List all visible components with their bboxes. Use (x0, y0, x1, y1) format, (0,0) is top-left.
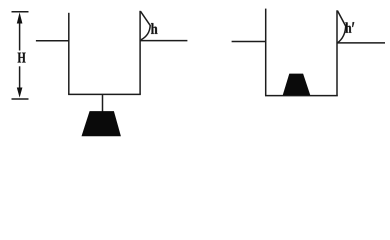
vessel 2 left wall (265, 9, 267, 96)
label h (151, 23, 157, 34)
dimension H bottom tick (12, 98, 29, 100)
up arrowhead of H dimension (17, 12, 23, 23)
weight inside vessel 2 (black trapezoid) (283, 74, 311, 96)
label H (18, 53, 26, 63)
vessel 1 right wall (139, 11, 141, 95)
right water line (right figure) (337, 42, 385, 44)
dimension H shaft upper (19, 20, 21, 51)
label h-prime: prime mark (352, 22, 354, 27)
vessel 1 left wall (68, 13, 70, 95)
suspension stem (string) (102, 94, 104, 111)
dimension H shaft lower (19, 66, 21, 88)
right water line (left figure) (140, 40, 187, 42)
vessel 2 right wall (336, 10, 338, 95)
down arrowhead of H dimension (17, 88, 23, 98)
vessel 1 bottom (68, 93, 141, 95)
freeboard marker h (curved pennant, left figure) (141, 11, 151, 40)
dimension H top tick (12, 11, 29, 13)
weight hung below vessel 1 (black trapezoid) (82, 111, 121, 136)
left water line (right figure) (232, 41, 266, 43)
left water line (left figure) (36, 40, 69, 42)
label h-prime: h (345, 22, 351, 32)
vessel 2 bottom (265, 95, 338, 97)
freeboard marker h' (curved pennant, right figure) (337, 11, 345, 43)
